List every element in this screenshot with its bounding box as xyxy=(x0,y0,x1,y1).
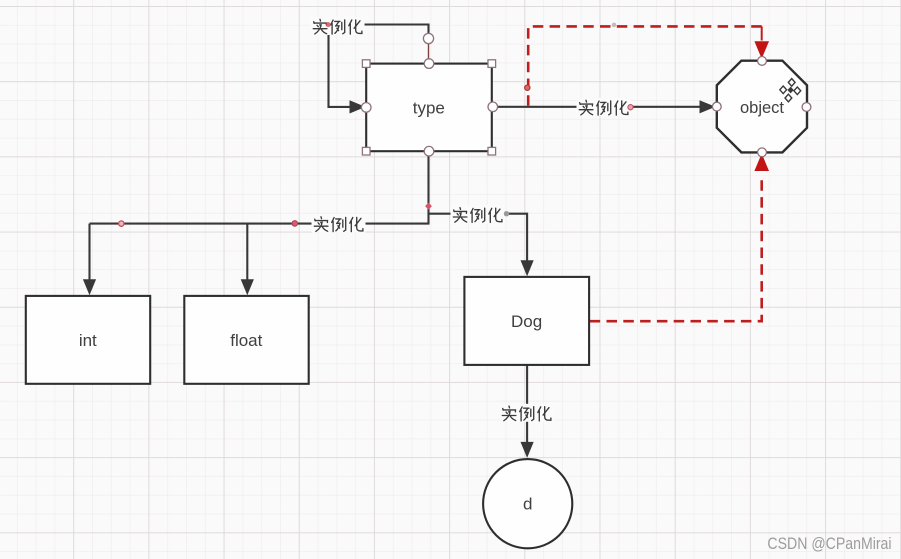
wire red Dog->object bottom route xyxy=(590,178,762,322)
svg-text:int: int xyxy=(79,331,97,350)
wire type->object xyxy=(493,106,701,108)
red arrowhead into object bottom xyxy=(754,154,769,172)
arrowhead into type left xyxy=(350,100,366,113)
glyph diamond bottom xyxy=(785,94,792,102)
node texts xyxy=(79,99,785,514)
wire red type->object top route xyxy=(528,26,762,105)
node type xyxy=(366,64,492,152)
glyph diamond left xyxy=(780,86,787,94)
node object octagon xyxy=(717,61,807,153)
node d xyxy=(483,459,572,548)
node int xyxy=(26,296,150,384)
waypoint dot after object label xyxy=(628,105,633,110)
handle rotation circle xyxy=(428,44,430,64)
svg-text:d: d xyxy=(523,495,532,514)
svg-text:type: type xyxy=(413,99,445,118)
glyph diamond right xyxy=(794,87,801,95)
label type->Dog 实例化 xyxy=(451,205,505,223)
svg-text:Dog: Dog xyxy=(511,312,542,331)
label type->object 实例化 xyxy=(577,98,631,116)
waypoint dot left wire 2 xyxy=(292,221,298,227)
arrowhead into Dog xyxy=(521,260,534,276)
waypoint diamond on trunk xyxy=(425,203,432,210)
node float xyxy=(184,296,308,384)
label self-loop 实例化 xyxy=(311,17,365,35)
wire trunk->int/float horizontal xyxy=(90,223,430,225)
waypoint dot left wire 1 xyxy=(119,221,124,226)
wire drop to int xyxy=(88,224,90,282)
handle edge circles xyxy=(424,59,434,69)
wire type bottom trunk xyxy=(427,151,429,223)
red arrowhead into object top xyxy=(754,41,769,59)
wire self-loop type->type xyxy=(329,25,429,107)
arrowhead into int xyxy=(83,279,96,295)
glyph diamond top xyxy=(788,79,795,87)
svg-text:object: object xyxy=(740,99,784,117)
move-glyph inside octagon: 4 diamonds xyxy=(780,79,801,102)
conn circle object right xyxy=(802,103,811,112)
waypoint dot type->Dog xyxy=(504,211,509,216)
conn circle object bottom xyxy=(758,148,767,157)
handle corner squares xyxy=(362,60,370,68)
svg-text:float: float xyxy=(230,331,262,350)
arrowhead into float xyxy=(241,279,254,295)
wire type->Dog xyxy=(429,214,528,263)
node Dog xyxy=(464,277,589,365)
label trunk->int/float 实例化 xyxy=(312,215,366,233)
conn circle object left xyxy=(712,102,721,111)
watermark xyxy=(768,534,892,554)
wire drop to float xyxy=(246,223,248,282)
arrowhead into d xyxy=(521,442,534,458)
glyph center dot xyxy=(788,88,792,93)
waypoint dot on self-loop label xyxy=(326,22,331,27)
arrowhead into object left xyxy=(700,100,716,113)
wire Dog->d xyxy=(526,365,528,444)
label Dog->d 实例化 xyxy=(500,404,554,422)
conn circle object top xyxy=(758,57,767,66)
octagon connection circles xyxy=(712,57,811,157)
waypoint dot red vertical xyxy=(525,85,530,90)
waypoint dot on red top horizontal xyxy=(612,23,617,28)
